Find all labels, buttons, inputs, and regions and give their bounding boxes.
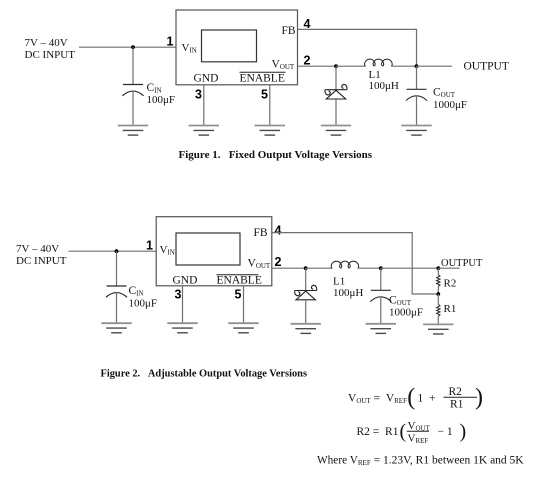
wire: switch node down to D1 (fig2)	[305, 268, 307, 290]
svg-text:100μF: 100μF	[147, 94, 176, 106]
wire: switch node to L1 (fig2)	[306, 267, 333, 269]
capacitor CIN 100uF (fig2)	[106, 285, 157, 310]
regulator U1 outline (fig2)	[156, 217, 272, 286]
svg-text:(: (	[400, 421, 407, 443]
svg-text:DC INPUT: DC INPUT	[16, 255, 67, 267]
wire: output node to OUTPUT terminal (fig2)	[438, 267, 459, 269]
junction: input node (fig2)	[115, 249, 119, 253]
wire: COUT node down to COUT (fig2)	[380, 268, 382, 290]
svg-text:CIN: CIN	[147, 82, 162, 95]
svg-text:1000μF: 1000μF	[389, 307, 423, 319]
junction: input node (fig1)	[131, 45, 135, 49]
regulator U1 inner box (fig2)	[176, 233, 240, 265]
svg-text:4: 4	[275, 223, 282, 237]
wire: output node down to COUT (fig1)	[416, 66, 418, 89]
svg-text:CIN: CIN	[129, 285, 144, 298]
svg-text:VOUT: VOUT	[408, 420, 431, 433]
svg-text:Where VREF = 1.23V, R1 between: Where VREF = 1.23V, R1 between 1K and 5K	[317, 455, 524, 468]
svg-text:VOUT = VREF: VOUT = VREF	[348, 393, 407, 406]
ground: CIN (fig2)	[101, 323, 131, 333]
svg-text:VOUT: VOUT	[272, 59, 295, 72]
wire: L1 to output node (fig1)	[391, 65, 416, 67]
svg-text:2: 2	[304, 53, 311, 67]
ground: CIN (fig1)	[118, 126, 148, 136]
svg-text:R2: R2	[444, 278, 457, 290]
wire: L1 to COUT node (fig2)	[358, 267, 381, 269]
wire: GND pin 3 to ground (fig2)	[182, 286, 184, 323]
svg-text:COUT: COUT	[433, 87, 456, 100]
svg-text:R1: R1	[444, 303, 457, 315]
svg-text:7V – 40V: 7V – 40V	[25, 37, 68, 49]
svg-text:VOUT: VOUT	[248, 258, 271, 271]
svg-text:): )	[475, 385, 483, 411]
equation 1: VOUT = VREF (1 + R2/R1)	[348, 385, 483, 411]
junction: switch node (fig2)	[304, 266, 308, 270]
wire: COUT to ground (fig1)	[416, 96, 418, 126]
svg-text:OUTPUT: OUTPUT	[441, 258, 483, 269]
svg-text:R1: R1	[450, 399, 464, 411]
svg-text:Figure 1. Fixed Output Volta: Figure 1. Fixed Output Voltage Versions	[179, 149, 373, 161]
capacitor COUT 1000uF (fig1)	[406, 87, 467, 112]
svg-text:2: 2	[275, 255, 282, 269]
svg-text:GND: GND	[194, 73, 219, 85]
svg-text:100μF: 100μF	[129, 298, 158, 310]
svg-text:3: 3	[195, 88, 202, 102]
svg-text:1 +: 1 +	[418, 393, 436, 405]
wire: CIN to ground (fig2)	[116, 292, 118, 323]
wire: DC input to pin 1 (fig1)	[79, 46, 176, 48]
wire: VOUT pin 2 to switch node (fig2)	[272, 267, 306, 269]
wire: input node down to CIN (fig2)	[116, 251, 118, 286]
regulator U1 inner box (fig1)	[202, 30, 257, 62]
wire: DC input to pin 1 (fig2)	[69, 250, 157, 252]
svg-text:Figure 2. Adjustable Output: Figure 2. Adjustable Output Voltage Vers…	[101, 369, 308, 380]
svg-text:− 1: − 1	[438, 426, 453, 438]
junction: output node (fig1)	[415, 64, 419, 68]
svg-text:FB: FB	[254, 227, 268, 239]
svg-text:3: 3	[175, 287, 182, 301]
wire: COUT node to output node (fig2)	[381, 267, 439, 269]
wire: switch node down to D1 (fig1)	[335, 66, 337, 89]
svg-text:1000μF: 1000μF	[433, 99, 467, 111]
svg-text:ENABLE: ENABLE	[240, 73, 285, 85]
junction: COUT node (fig2)	[379, 266, 383, 270]
svg-text:DC INPUT: DC INPUT	[25, 49, 76, 61]
svg-text:): )	[460, 421, 467, 443]
diode D1 (fig2) (Schottky catch diode)	[295, 285, 317, 300]
svg-text:FB: FB	[282, 25, 296, 37]
ground: R1 (fig2)	[423, 324, 453, 334]
svg-text:4: 4	[304, 17, 311, 31]
svg-text:ENABLE: ENABLE	[217, 275, 262, 287]
svg-text:1: 1	[146, 239, 153, 253]
ground: pin 3 (fig2)	[167, 323, 197, 333]
wire: ENABLE pin 5 to ground (fig2)	[243, 286, 245, 323]
wire: D1 anode to ground (fig1)	[335, 99, 337, 126]
svg-text:GND: GND	[173, 275, 198, 287]
ground: pin 5 (fig2)	[228, 323, 258, 333]
ground: COUT (fig1)	[401, 126, 431, 136]
junction: output node / R2 top (fig2)	[436, 266, 440, 270]
wire: switch node to L1 (fig1)	[336, 65, 366, 67]
wire: D1 anode to ground (fig2)	[305, 300, 307, 324]
junction: switch node (fig1)	[334, 64, 338, 68]
ground: D1 (fig2)	[291, 324, 321, 334]
svg-text:OUTPUT: OUTPUT	[464, 61, 509, 73]
inductor L1 100uH (fig1)	[365, 59, 399, 92]
diode D1 (fig1) (Schottky catch diode)	[325, 84, 347, 99]
pin label ENABLE with overline (fig2)	[217, 275, 262, 287]
ground: pin 5 (fig1)	[255, 126, 285, 136]
pin label ENABLE with overline (fig1)	[240, 72, 286, 84]
wire: input node down to CIN (fig1)	[132, 47, 134, 84]
svg-text:100μH: 100μH	[369, 80, 399, 92]
wire: ENABLE pin 5 to ground (fig1)	[269, 85, 271, 126]
wire: FB pin 4 to feedback divider (fig2)	[272, 233, 439, 294]
wire: GND pin 3 to ground (fig1)	[203, 85, 205, 126]
svg-text:VREF: VREF	[408, 433, 429, 446]
svg-text:VIN: VIN	[182, 42, 197, 55]
wire: VOUT pin 2 to switch node (fig1)	[298, 65, 337, 67]
svg-text:(: (	[407, 385, 415, 411]
net label: DC INPUT (fig2)	[16, 243, 67, 267]
ground: COUT (fig2)	[366, 324, 396, 334]
svg-text:7V – 40V: 7V – 40V	[16, 243, 59, 255]
wire: output node to OUTPUT terminal (fig1)	[417, 65, 453, 67]
svg-text:L1: L1	[333, 276, 345, 288]
svg-text:VIN: VIN	[160, 244, 175, 257]
regulator U1 outline (fig1)	[176, 10, 298, 85]
net label: DC INPUT (fig1)	[25, 37, 76, 61]
ground: D1 (fig1)	[321, 126, 351, 136]
equation 2: R2 = R1 (VOUT/VREF - 1)	[357, 420, 467, 445]
capacitor CIN 100uF (fig1)	[122, 82, 175, 106]
svg-text:5: 5	[261, 88, 268, 102]
wire: CIN to ground (fig1)	[132, 91, 134, 126]
inductor L1 100uH (fig2)	[331, 261, 363, 299]
svg-text:COUT: COUT	[389, 295, 412, 308]
svg-text:5: 5	[235, 287, 242, 301]
svg-text:R2: R2	[449, 386, 463, 398]
svg-text:R2 = R1: R2 = R1	[357, 426, 399, 438]
resistor R2 (fig2)	[437, 268, 457, 294]
svg-text:100μH: 100μH	[333, 287, 363, 299]
resistor R1 (fig2)	[437, 294, 457, 324]
capacitor COUT 1000uF (fig2)	[370, 290, 423, 318]
junction: feedback node R2/R1 (fig2)	[436, 292, 440, 296]
wire: FB pin 4 to output node (fig1)	[298, 29, 417, 66]
wire: COUT to ground (fig2)	[380, 297, 382, 324]
svg-text:1: 1	[167, 35, 174, 49]
ground: pin 3 (fig1)	[189, 126, 219, 136]
